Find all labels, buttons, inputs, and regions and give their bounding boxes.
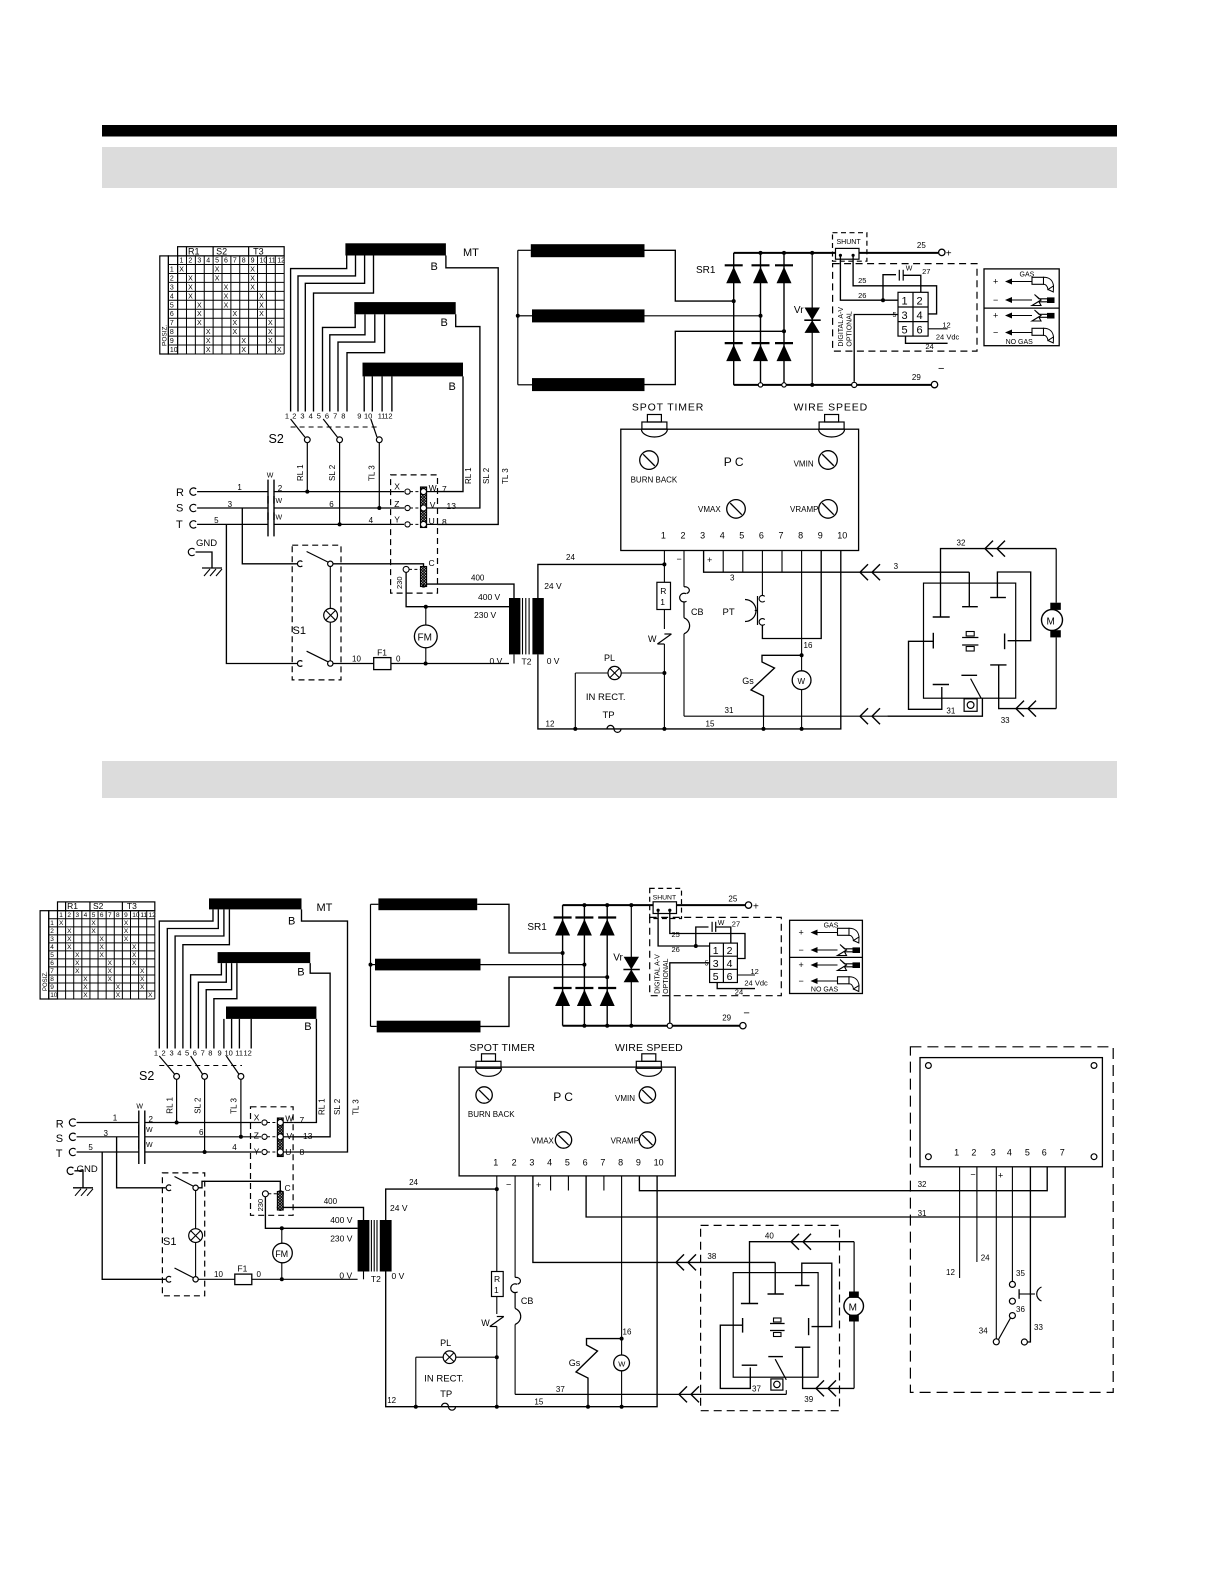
- 230/400 voltage selector circles: [421, 566, 427, 572]
- svg-text:X: X: [140, 968, 145, 975]
- remote switch arm: [999, 1318, 1011, 1340]
- svg-text:12: 12: [546, 720, 555, 729]
- bottom S1 lamp wires: [195, 1191, 197, 1229]
- pin3 wire 3 to torch: [704, 551, 970, 573]
- svg-text:B: B: [431, 261, 438, 273]
- diode D2: [752, 264, 770, 266]
- bottom transformer MT primary winding B3: [226, 1007, 316, 1019]
- svg-text:SHUNT: SHUNT: [837, 239, 862, 246]
- wire feed motor M: [1042, 610, 1063, 631]
- svg-text:X: X: [394, 482, 400, 492]
- bottom B1 tap wires to terminals 1-4: [159, 909, 213, 1048]
- remote microswitch actuator: [1018, 1289, 1020, 1299]
- svg-text:12: 12: [946, 1268, 955, 1277]
- svg-text:W: W: [798, 677, 806, 686]
- bottom arrows on wire 38: [676, 1254, 684, 1262]
- svg-text:32: 32: [957, 539, 966, 548]
- bottom trimmer BURN BACK: [476, 1087, 492, 1103]
- rectifier diode column 1: [733, 253, 735, 385]
- bottom digital connector grid 1-6: [710, 943, 738, 982]
- control board PC outline: [621, 429, 859, 550]
- svg-text:24 Vdc: 24 Vdc: [936, 332, 960, 341]
- svg-text:X: X: [116, 992, 121, 999]
- svg-text:6: 6: [917, 325, 923, 337]
- svg-text:24 V: 24 V: [390, 1203, 408, 1213]
- svg-text:4: 4: [727, 958, 733, 970]
- bottom wire S3bar to rectifier: [481, 977, 608, 1026]
- bottom control board PC outline: [459, 1067, 675, 1176]
- svg-text:X: X: [277, 347, 282, 354]
- svg-text:BURN BACK: BURN BACK: [468, 1110, 515, 1119]
- svg-text:B: B: [288, 916, 295, 928]
- bottom pin9 wire 32 to remote: [639, 1167, 1047, 1191]
- svg-text:1: 1: [494, 1285, 499, 1295]
- svg-text:2: 2: [681, 531, 686, 541]
- svg-text:Z: Z: [394, 499, 399, 509]
- remote pin1 wire 12: [959, 1167, 961, 1278]
- svg-text:8: 8: [798, 531, 803, 541]
- svg-text:1: 1: [154, 1049, 158, 1058]
- svg-text:−: −: [743, 1007, 749, 1019]
- svg-text:TL 3: TL 3: [352, 1099, 361, 1115]
- terminal block W on R line: [267, 480, 269, 504]
- svg-text:8: 8: [208, 1049, 212, 1058]
- svg-text:0: 0: [396, 655, 401, 664]
- svg-text:5: 5: [92, 912, 96, 919]
- bottom wire 37 into trigger: [785, 1390, 787, 1394]
- svg-text:X: X: [132, 952, 137, 959]
- transformer MT primary winding B3: [363, 363, 464, 377]
- bottom trigger pushbutton: [771, 1379, 783, 1390]
- svg-text:0 V: 0 V: [490, 656, 503, 666]
- table header row R1 S2 T3: [178, 247, 285, 256]
- svg-text:X: X: [206, 347, 211, 354]
- svg-text:X: X: [108, 976, 113, 983]
- bottom fuse F1: [235, 1274, 252, 1285]
- svg-text:W: W: [648, 634, 657, 644]
- svg-text:X: X: [224, 284, 229, 291]
- bottom transformer MT primary winding B1: [209, 898, 302, 909]
- svg-text:+: +: [753, 901, 759, 912]
- bottom WIRE SPEED knob: [642, 1054, 656, 1062]
- svg-text:6: 6: [1042, 1148, 1047, 1158]
- svg-text:5: 5: [893, 312, 897, 319]
- svg-text:7: 7: [170, 320, 174, 327]
- svg-text:6: 6: [727, 971, 733, 983]
- wire S3bar to rectifier: [645, 331, 785, 384]
- svg-text:C: C: [429, 558, 435, 568]
- svg-text:X: X: [124, 920, 129, 927]
- bottom S1 bottom contact: [166, 1276, 171, 1282]
- contact C upper right: [997, 572, 1030, 641]
- svg-text:31: 31: [946, 707, 955, 716]
- svg-text:SL 2: SL 2: [328, 464, 337, 481]
- svg-text:F1: F1: [377, 648, 387, 658]
- svg-text:6: 6: [583, 1158, 588, 1168]
- svg-text:1: 1: [954, 1148, 959, 1158]
- wire S1bar to rectifier: [645, 250, 734, 301]
- svg-text:13: 13: [447, 501, 457, 511]
- bottom contact right bottom to wire 39: [795, 1346, 810, 1348]
- svg-text:X: X: [268, 338, 273, 345]
- bottom wire 38 into contact B: [774, 1262, 776, 1294]
- svg-text:5: 5: [1025, 1148, 1030, 1158]
- bottom thermal cutout W below R1: [496, 1297, 498, 1315]
- svg-text:3: 3: [894, 562, 899, 571]
- svg-text:X: X: [75, 960, 80, 967]
- svg-text:W: W: [718, 920, 725, 927]
- svg-text:SL 2: SL 2: [482, 467, 491, 484]
- svg-text:8: 8: [170, 329, 174, 336]
- svg-text:0: 0: [257, 1270, 262, 1279]
- svg-text:24: 24: [409, 1178, 418, 1187]
- fan motor FM: [414, 625, 437, 648]
- rectifier diode column 3: [783, 253, 785, 385]
- bottom PC pin stubs: [550, 1176, 552, 1191]
- svg-text:TL 3: TL 3: [368, 465, 377, 481]
- svg-text:12: 12: [384, 412, 392, 421]
- bottom wire T line to S1 bottom contact: [102, 1152, 165, 1279]
- bottom MT secondary winding S3bar: [377, 1021, 481, 1033]
- svg-text:X: X: [148, 992, 153, 999]
- MT secondary winding S1bar: [531, 244, 645, 257]
- title bar: [102, 125, 1117, 137]
- svg-text:10: 10: [654, 1158, 664, 1168]
- svg-text:10: 10: [214, 1270, 223, 1279]
- svg-text:T3: T3: [127, 901, 137, 911]
- svg-text:X: X: [197, 311, 202, 318]
- bottom contact C upper right: [802, 1263, 832, 1326]
- wire S1 bottom to fuse F1: [333, 663, 374, 665]
- svg-text:GAS: GAS: [824, 923, 839, 930]
- svg-text:6: 6: [329, 500, 334, 509]
- svg-text:3: 3: [713, 958, 719, 970]
- bottom transformer MT primary winding B2: [218, 952, 311, 963]
- wire 12 from pin6: [928, 328, 948, 330]
- GND wire: [196, 552, 212, 568]
- bottom rectifier diode column 3: [606, 905, 608, 1026]
- bottom wire 37 to torch trigger: [515, 1393, 786, 1395]
- svg-text:DIGITAL A-V: DIGITAL A-V: [655, 954, 662, 994]
- svg-text:8: 8: [116, 912, 120, 919]
- bottom secondary star link: [370, 904, 372, 1026]
- bottom B2 right wire to V terminal (SL2): [293, 963, 330, 1137]
- arrows on wire 3: [860, 564, 868, 572]
- svg-text:5: 5: [88, 1143, 93, 1152]
- arrows on wire 31: [860, 708, 868, 716]
- svg-text:1: 1: [170, 266, 174, 273]
- svg-text:S: S: [56, 1133, 63, 1145]
- svg-text:S2: S2: [269, 432, 284, 446]
- bottom wiper RL1 wire down to R line: [176, 1079, 178, 1122]
- S1 lamp wires: [329, 567, 331, 609]
- bottom earth ground symbol: [73, 1187, 93, 1189]
- torch connector box: [924, 583, 1016, 698]
- svg-text:MT: MT: [317, 902, 333, 914]
- bottom thermal probe TP symbol on wire 15: [442, 1403, 456, 1410]
- wire top rail through shunt to terminal 25: [859, 252, 938, 254]
- svg-text:X: X: [241, 347, 246, 354]
- bottom T2 secondary bottom wire to 15 rail: [386, 1176, 657, 1407]
- svg-text:X: X: [206, 338, 211, 345]
- diode D4: [725, 342, 743, 344]
- svg-text:RL 1: RL 1: [296, 464, 305, 481]
- svg-text:TL 3: TL 3: [501, 468, 510, 484]
- svg-text:X: X: [215, 266, 220, 273]
- svg-text:SL 2: SL 2: [333, 1098, 342, 1115]
- svg-text:−: −: [993, 295, 998, 305]
- svg-text:SPOT TIMER: SPOT TIMER: [632, 401, 704, 413]
- diode D6: [775, 342, 793, 344]
- svg-text:X: X: [75, 968, 80, 975]
- CB wire to 31 rail: [683, 634, 685, 716]
- svg-text:T: T: [176, 519, 183, 531]
- svg-text:X: X: [75, 952, 80, 959]
- T2 secondary bottom wire to 15 rail: [538, 551, 841, 729]
- W motor wires: [801, 655, 803, 671]
- pin8 wire to node 16: [801, 551, 803, 656]
- trimmer BURN BACK: [640, 451, 659, 470]
- svg-text:X: X: [132, 944, 137, 951]
- trigger pushbutton: [964, 699, 977, 712]
- wire S2bar to rectifier: [645, 315, 761, 317]
- svg-text:−: −: [799, 945, 804, 955]
- bottom shunt sense wire 26: [658, 910, 710, 946]
- wire S line to S1 top contact: [242, 508, 297, 564]
- svg-text:31: 31: [725, 706, 734, 715]
- B2 right wire to V terminal (SL2): [437, 314, 480, 508]
- bottom torch connector box: [733, 1273, 818, 1378]
- svg-text:400: 400: [324, 1197, 338, 1206]
- svg-text:NO GAS: NO GAS: [811, 986, 839, 993]
- svg-text:−: −: [993, 328, 998, 338]
- auxiliary transformer T2 primary: [509, 598, 520, 654]
- bottom dashed link X-W: [267, 1122, 277, 1124]
- bottom capacitor across motor: [770, 1323, 785, 1325]
- svg-text:R1: R1: [188, 246, 200, 256]
- svg-text:X: X: [132, 960, 137, 967]
- svg-text:3: 3: [50, 936, 54, 943]
- svg-text:1: 1: [660, 597, 665, 607]
- bottom wiper TL3 wire down to S line: [240, 1079, 242, 1137]
- dashed link 230 plug: [409, 568, 421, 570]
- bottom dashed link 230 plug: [268, 1193, 277, 1195]
- terminal 25 circle and +: [939, 249, 945, 255]
- svg-text:VRAMP: VRAMP: [790, 505, 818, 514]
- svg-text:X: X: [250, 284, 255, 291]
- table header row R1 S2 T3: [58, 902, 155, 911]
- bottom wire feed motor W: [614, 1355, 630, 1371]
- bottom torch dashed box: [701, 1225, 840, 1410]
- circuit breaker CB: [684, 587, 689, 594]
- svg-text:0 V: 0 V: [392, 1271, 405, 1281]
- B3 right wire to W terminal (RL1): [437, 376, 463, 491]
- svg-text:X: X: [259, 293, 264, 300]
- svg-text:+: +: [946, 248, 952, 259]
- svg-text:1: 1: [902, 296, 908, 308]
- bottom 230/400 hatched bar: [277, 1192, 283, 1211]
- terminal block W on T line: [267, 512, 269, 536]
- bottom wire S2bar to rectifier: [481, 964, 585, 966]
- svg-text:X: X: [188, 275, 193, 282]
- svg-text:25: 25: [858, 276, 866, 285]
- svg-text:X: X: [91, 920, 96, 927]
- svg-text:W: W: [906, 265, 913, 272]
- svg-text:230 V: 230 V: [474, 610, 497, 620]
- svg-text:2: 2: [278, 484, 283, 493]
- svg-text:−: −: [938, 363, 944, 375]
- svg-text:W: W: [136, 1104, 143, 1111]
- svg-text:7: 7: [779, 531, 784, 541]
- bottom shunt sense wire 25: [670, 910, 745, 958]
- remote pin2 wire 24: [976, 1167, 978, 1262]
- svg-text:X: X: [124, 928, 129, 935]
- svg-text:5: 5: [713, 971, 719, 983]
- transformer MT primary winding B1: [345, 243, 446, 255]
- bottom pin3 wire 38 to torch: [533, 1176, 775, 1263]
- svg-text:2: 2: [50, 928, 54, 935]
- svg-text:3: 3: [529, 1158, 534, 1168]
- svg-text:5: 5: [317, 412, 321, 421]
- bottom B3 tap wires to terminals 9-12: [223, 1019, 225, 1049]
- PT bottom wire to pin9: [762, 551, 821, 639]
- bottom B2 tap wires to terminals 5-8: [191, 963, 222, 1048]
- svg-text:2: 2: [170, 275, 174, 282]
- svg-text:7: 7: [1060, 1148, 1065, 1158]
- bottom wire from pin3 to bottom rail: [670, 963, 710, 1023]
- bottom MT secondary winding S2bar: [375, 959, 481, 971]
- svg-text:−: −: [799, 976, 804, 986]
- contact right bottom to wire 33: [990, 664, 1006, 666]
- bottom dashed link Y-U: [267, 1151, 277, 1153]
- svg-text:27: 27: [732, 920, 740, 929]
- svg-text:7: 7: [233, 258, 237, 265]
- S2 wiper 2: [323, 419, 337, 437]
- bottom rectifier diode column 2: [583, 905, 585, 1026]
- svg-text:R: R: [494, 1274, 500, 1284]
- svg-text:15: 15: [706, 720, 715, 729]
- dashed link Y-U: [410, 523, 421, 525]
- bottom pin2 wire down through CB: [514, 1176, 516, 1278]
- bottom arrows on wire 37: [679, 1386, 687, 1394]
- svg-text:W: W: [618, 1360, 626, 1369]
- fuse F1: [374, 658, 391, 670]
- FM wires: [425, 607, 427, 625]
- svg-text:X: X: [124, 936, 129, 943]
- pin2 wire down through CB: [683, 551, 685, 587]
- bottom line R wire: [77, 1122, 139, 1124]
- S1 bottom contact: [297, 661, 302, 667]
- SPOT TIMER knob: [647, 415, 661, 423]
- S1 lamp: [324, 608, 338, 622]
- svg-text:W: W: [276, 514, 283, 521]
- svg-text:12: 12: [751, 967, 759, 976]
- 230/400 hatched bar: [421, 567, 427, 587]
- svg-text:M: M: [849, 1303, 857, 1314]
- svg-text:24 V: 24 V: [544, 581, 562, 591]
- motor connector dashed box: [391, 475, 438, 593]
- switch S2 coupling dashed line: [291, 426, 380, 428]
- svg-text:X: X: [100, 944, 105, 951]
- bottom pin6 wire 31 to remote: [586, 1167, 1065, 1217]
- S1 top contact: [297, 561, 302, 567]
- capacitor across motor: [962, 637, 978, 639]
- bottom pin8 wire to node 16: [621, 1176, 623, 1339]
- svg-text:X: X: [140, 976, 145, 983]
- svg-text:X: X: [108, 960, 113, 967]
- shunt sense wire 25: [853, 255, 937, 314]
- svg-text:X: X: [268, 320, 273, 327]
- svg-text:B: B: [304, 1021, 311, 1033]
- svg-text:24 Vdc: 24 Vdc: [744, 979, 768, 988]
- svg-text:Vr: Vr: [794, 305, 804, 316]
- svg-text:X: X: [100, 952, 105, 959]
- bottom auxiliary transformer T2 secondary: [380, 1220, 392, 1272]
- svg-text:POSIZ.: POSIZ.: [162, 324, 169, 346]
- svg-text:3: 3: [902, 310, 908, 322]
- svg-text:5: 5: [215, 258, 219, 265]
- wire from pin3 to bottom rail: [854, 315, 898, 382]
- svg-text:10: 10: [50, 992, 58, 999]
- svg-text:TP: TP: [603, 710, 615, 721]
- bottom diode D3: [598, 916, 616, 918]
- svg-text:4: 4: [720, 531, 725, 541]
- svg-text:6: 6: [224, 258, 228, 265]
- svg-text:2: 2: [971, 1148, 976, 1158]
- terminal block W on S line: [267, 496, 269, 520]
- bottom diode D4: [554, 987, 572, 989]
- svg-text:7: 7: [50, 968, 54, 975]
- auxiliary transformer T2 secondary: [532, 598, 543, 654]
- svg-text:1: 1: [285, 412, 289, 421]
- svg-text:13: 13: [303, 1131, 313, 1141]
- svg-text:31: 31: [918, 1209, 927, 1218]
- svg-text:6: 6: [50, 960, 54, 967]
- bottom wire 40 with arrows: [750, 1242, 855, 1304]
- svg-text:3: 3: [228, 500, 233, 509]
- bottom FM wires: [281, 1228, 283, 1243]
- svg-text:4: 4: [50, 944, 54, 951]
- connector circles on bar: [421, 489, 427, 495]
- earth ground symbol: [202, 567, 222, 569]
- bottom MT secondary winding S1bar: [378, 898, 477, 910]
- svg-text:24: 24: [925, 342, 933, 351]
- svg-text:2: 2: [67, 912, 71, 919]
- svg-text:1: 1: [50, 920, 54, 927]
- T2 core lines: [522, 598, 524, 654]
- bottom main switch S1 dashed box: [162, 1173, 204, 1296]
- svg-text:10: 10: [170, 347, 178, 354]
- remote switch contact mid: [1009, 1313, 1015, 1319]
- wire 24 from pin5: [906, 336, 948, 343]
- svg-text:4: 4: [206, 258, 210, 265]
- B1 tap wires to terminals 1-4: [291, 256, 347, 412]
- svg-text:FM: FM: [418, 633, 432, 644]
- wiper TL3 wire down to S line: [378, 443, 380, 508]
- svg-text:24: 24: [981, 1253, 990, 1262]
- remote pin4 wire 35 to microswitch: [1011, 1167, 1013, 1281]
- bottom T2 secondary top wire 24: [386, 1189, 497, 1220]
- svg-text:4: 4: [309, 412, 313, 421]
- svg-text:X: X: [116, 984, 121, 991]
- svg-text:3: 3: [170, 284, 174, 291]
- svg-text:6: 6: [325, 412, 329, 421]
- svg-text:S2: S2: [216, 246, 227, 256]
- rectifier top rail: [734, 252, 836, 254]
- svg-text:Vr: Vr: [613, 952, 623, 963]
- svg-text:X: X: [232, 311, 237, 318]
- bottom wire 12 from pin6: [737, 974, 755, 976]
